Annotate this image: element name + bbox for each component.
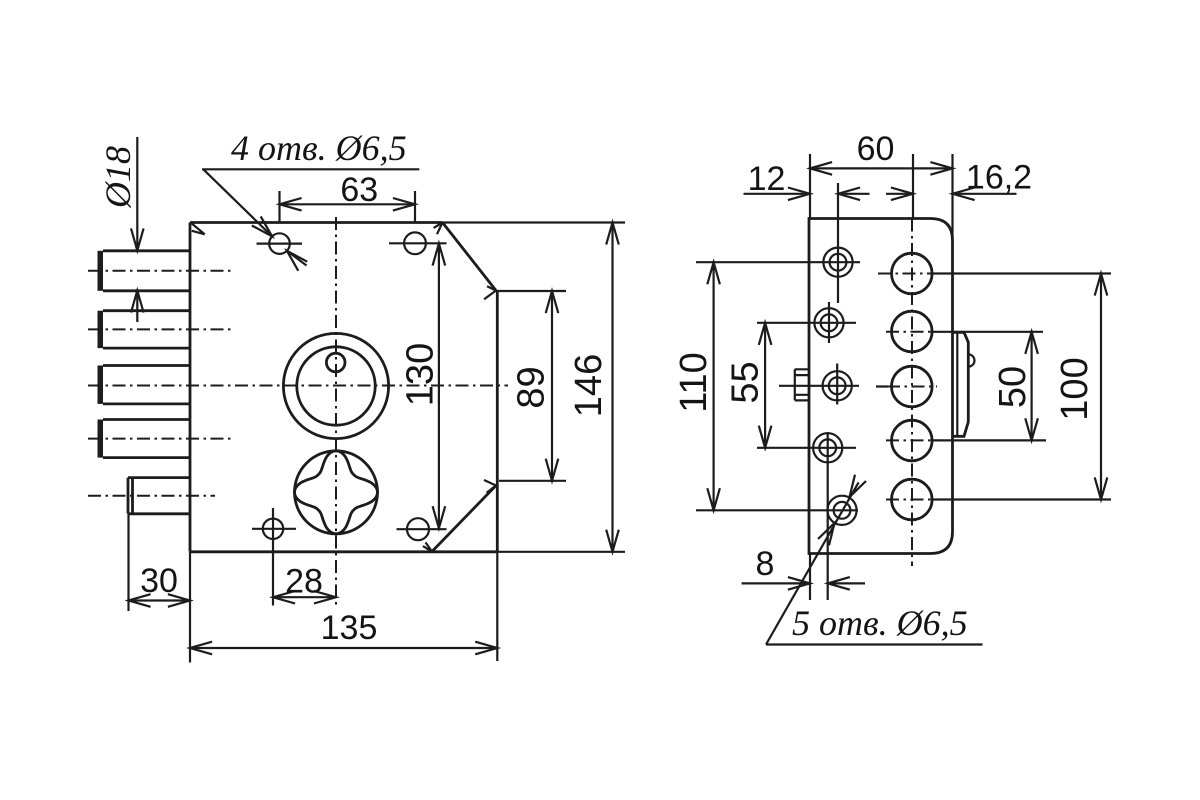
latch bar (bottom small bolt) bbox=[128, 478, 190, 514]
svg-text:30: 30 bbox=[140, 562, 178, 600]
lower keyway circle bbox=[295, 451, 378, 534]
cylinder outer circle bbox=[283, 333, 388, 438]
dimension 110 bbox=[673, 262, 720, 510]
top-left mounting hole bbox=[257, 233, 303, 254]
dimension 50 bbox=[992, 332, 1038, 441]
deadbolt 3 bbox=[98, 366, 191, 404]
cylinder inner circle bbox=[297, 347, 375, 425]
dimension 16,2 bbox=[886, 159, 1032, 201]
svg-text:12: 12 bbox=[748, 160, 786, 198]
svg-text:89: 89 bbox=[511, 366, 553, 408]
corner tick top-left bbox=[191, 223, 205, 235]
bolt hole 3 (plate) bbox=[892, 366, 933, 407]
latch bar centerline bbox=[88, 495, 215, 497]
bolt hole 1 (plate) bbox=[892, 253, 933, 294]
bolt hole 2 (plate) bbox=[892, 311, 933, 352]
screw hole 2 bbox=[814, 308, 843, 337]
bottom-left mounting hole bbox=[252, 508, 296, 606]
dimension 30 bbox=[129, 514, 191, 611]
dimension 28 bbox=[273, 563, 336, 604]
svg-text:50: 50 bbox=[992, 366, 1034, 408]
svg-text:60: 60 bbox=[857, 130, 895, 168]
svg-text:135: 135 bbox=[321, 609, 378, 647]
svg-text:8: 8 bbox=[756, 545, 775, 583]
screw hole 5 bbox=[827, 496, 856, 525]
mounting tab on plate edge bbox=[795, 369, 809, 400]
screw hole 1 bbox=[823, 248, 852, 277]
deadbolt 2 centerline bbox=[88, 328, 231, 330]
deadbolt 2 bbox=[98, 311, 191, 348]
svg-text:Ø18: Ø18 bbox=[98, 146, 138, 209]
corner tick at top chamfer end bbox=[484, 286, 496, 299]
lock case body outline (left view) bbox=[190, 223, 497, 552]
svg-text:100: 100 bbox=[1054, 357, 1096, 420]
svg-text:110: 110 bbox=[673, 352, 715, 413]
bolt hole centerlines bbox=[876, 219, 1111, 567]
cross-shaped keyway bbox=[295, 451, 378, 534]
screw cross lines bbox=[696, 183, 860, 600]
deadbolt 4 bbox=[98, 420, 191, 458]
label D18 bbox=[98, 146, 138, 209]
dimension 12 bbox=[744, 160, 870, 200]
dimension 100 bbox=[1054, 274, 1107, 500]
extension lines above plate bbox=[810, 154, 953, 237]
dimension D18 leader bbox=[131, 137, 144, 322]
corner tick at bottom chamfer start bbox=[423, 542, 432, 551]
svg-text:16,2: 16,2 bbox=[966, 159, 1032, 197]
dimension 130 bbox=[400, 244, 446, 529]
svg-text:63: 63 bbox=[340, 171, 378, 209]
cylinder pin hole bbox=[326, 353, 345, 372]
dimension 146 bbox=[443, 223, 626, 552]
dimension 55 bbox=[725, 323, 772, 448]
svg-text:55: 55 bbox=[725, 361, 767, 403]
latch button bump bbox=[968, 354, 974, 366]
top-right chamfer edge bbox=[443, 223, 497, 291]
deadbolt 1 bbox=[98, 251, 191, 291]
vertical centerline (left view) bbox=[335, 217, 337, 606]
bottom-right chamfer edge bbox=[432, 486, 496, 552]
main horizontal centerline bbox=[88, 385, 508, 387]
screw hole 3 bbox=[823, 371, 852, 400]
svg-text:130: 130 bbox=[400, 343, 442, 406]
svg-text:5 отв. Ø6,5: 5 отв. Ø6,5 bbox=[792, 603, 968, 643]
deadbolt 4 centerline bbox=[88, 438, 231, 440]
lock case profile protrusion bbox=[953, 332, 969, 436]
label 5 holes D6,5 with leader bbox=[766, 475, 983, 645]
dimension 8 bbox=[742, 545, 865, 600]
dimension 89 bbox=[496, 291, 566, 481]
label 4 holes D6,5 with leader bbox=[202, 128, 419, 271]
deadbolt 1 centerline bbox=[88, 270, 231, 272]
corner tick at top chamfer start bbox=[434, 223, 443, 235]
bottom-right mounting hole bbox=[397, 518, 447, 540]
face plate outline (right view) bbox=[809, 219, 953, 554]
dimension 63 bbox=[280, 171, 416, 224]
top-right mounting hole bbox=[389, 232, 447, 254]
dimension 135 bbox=[190, 552, 497, 663]
screw hole 4 bbox=[813, 433, 842, 462]
svg-text:28: 28 bbox=[285, 563, 323, 601]
svg-text:4 отв. Ø6,5: 4 отв. Ø6,5 bbox=[231, 128, 407, 168]
bolt hole 4 (plate) bbox=[892, 420, 933, 461]
bolt hole 5 (plate) bbox=[892, 479, 933, 520]
corner tick at bottom chamfer end bbox=[484, 480, 496, 493]
svg-text:146: 146 bbox=[568, 354, 610, 417]
dimension 60 bbox=[810, 130, 953, 175]
